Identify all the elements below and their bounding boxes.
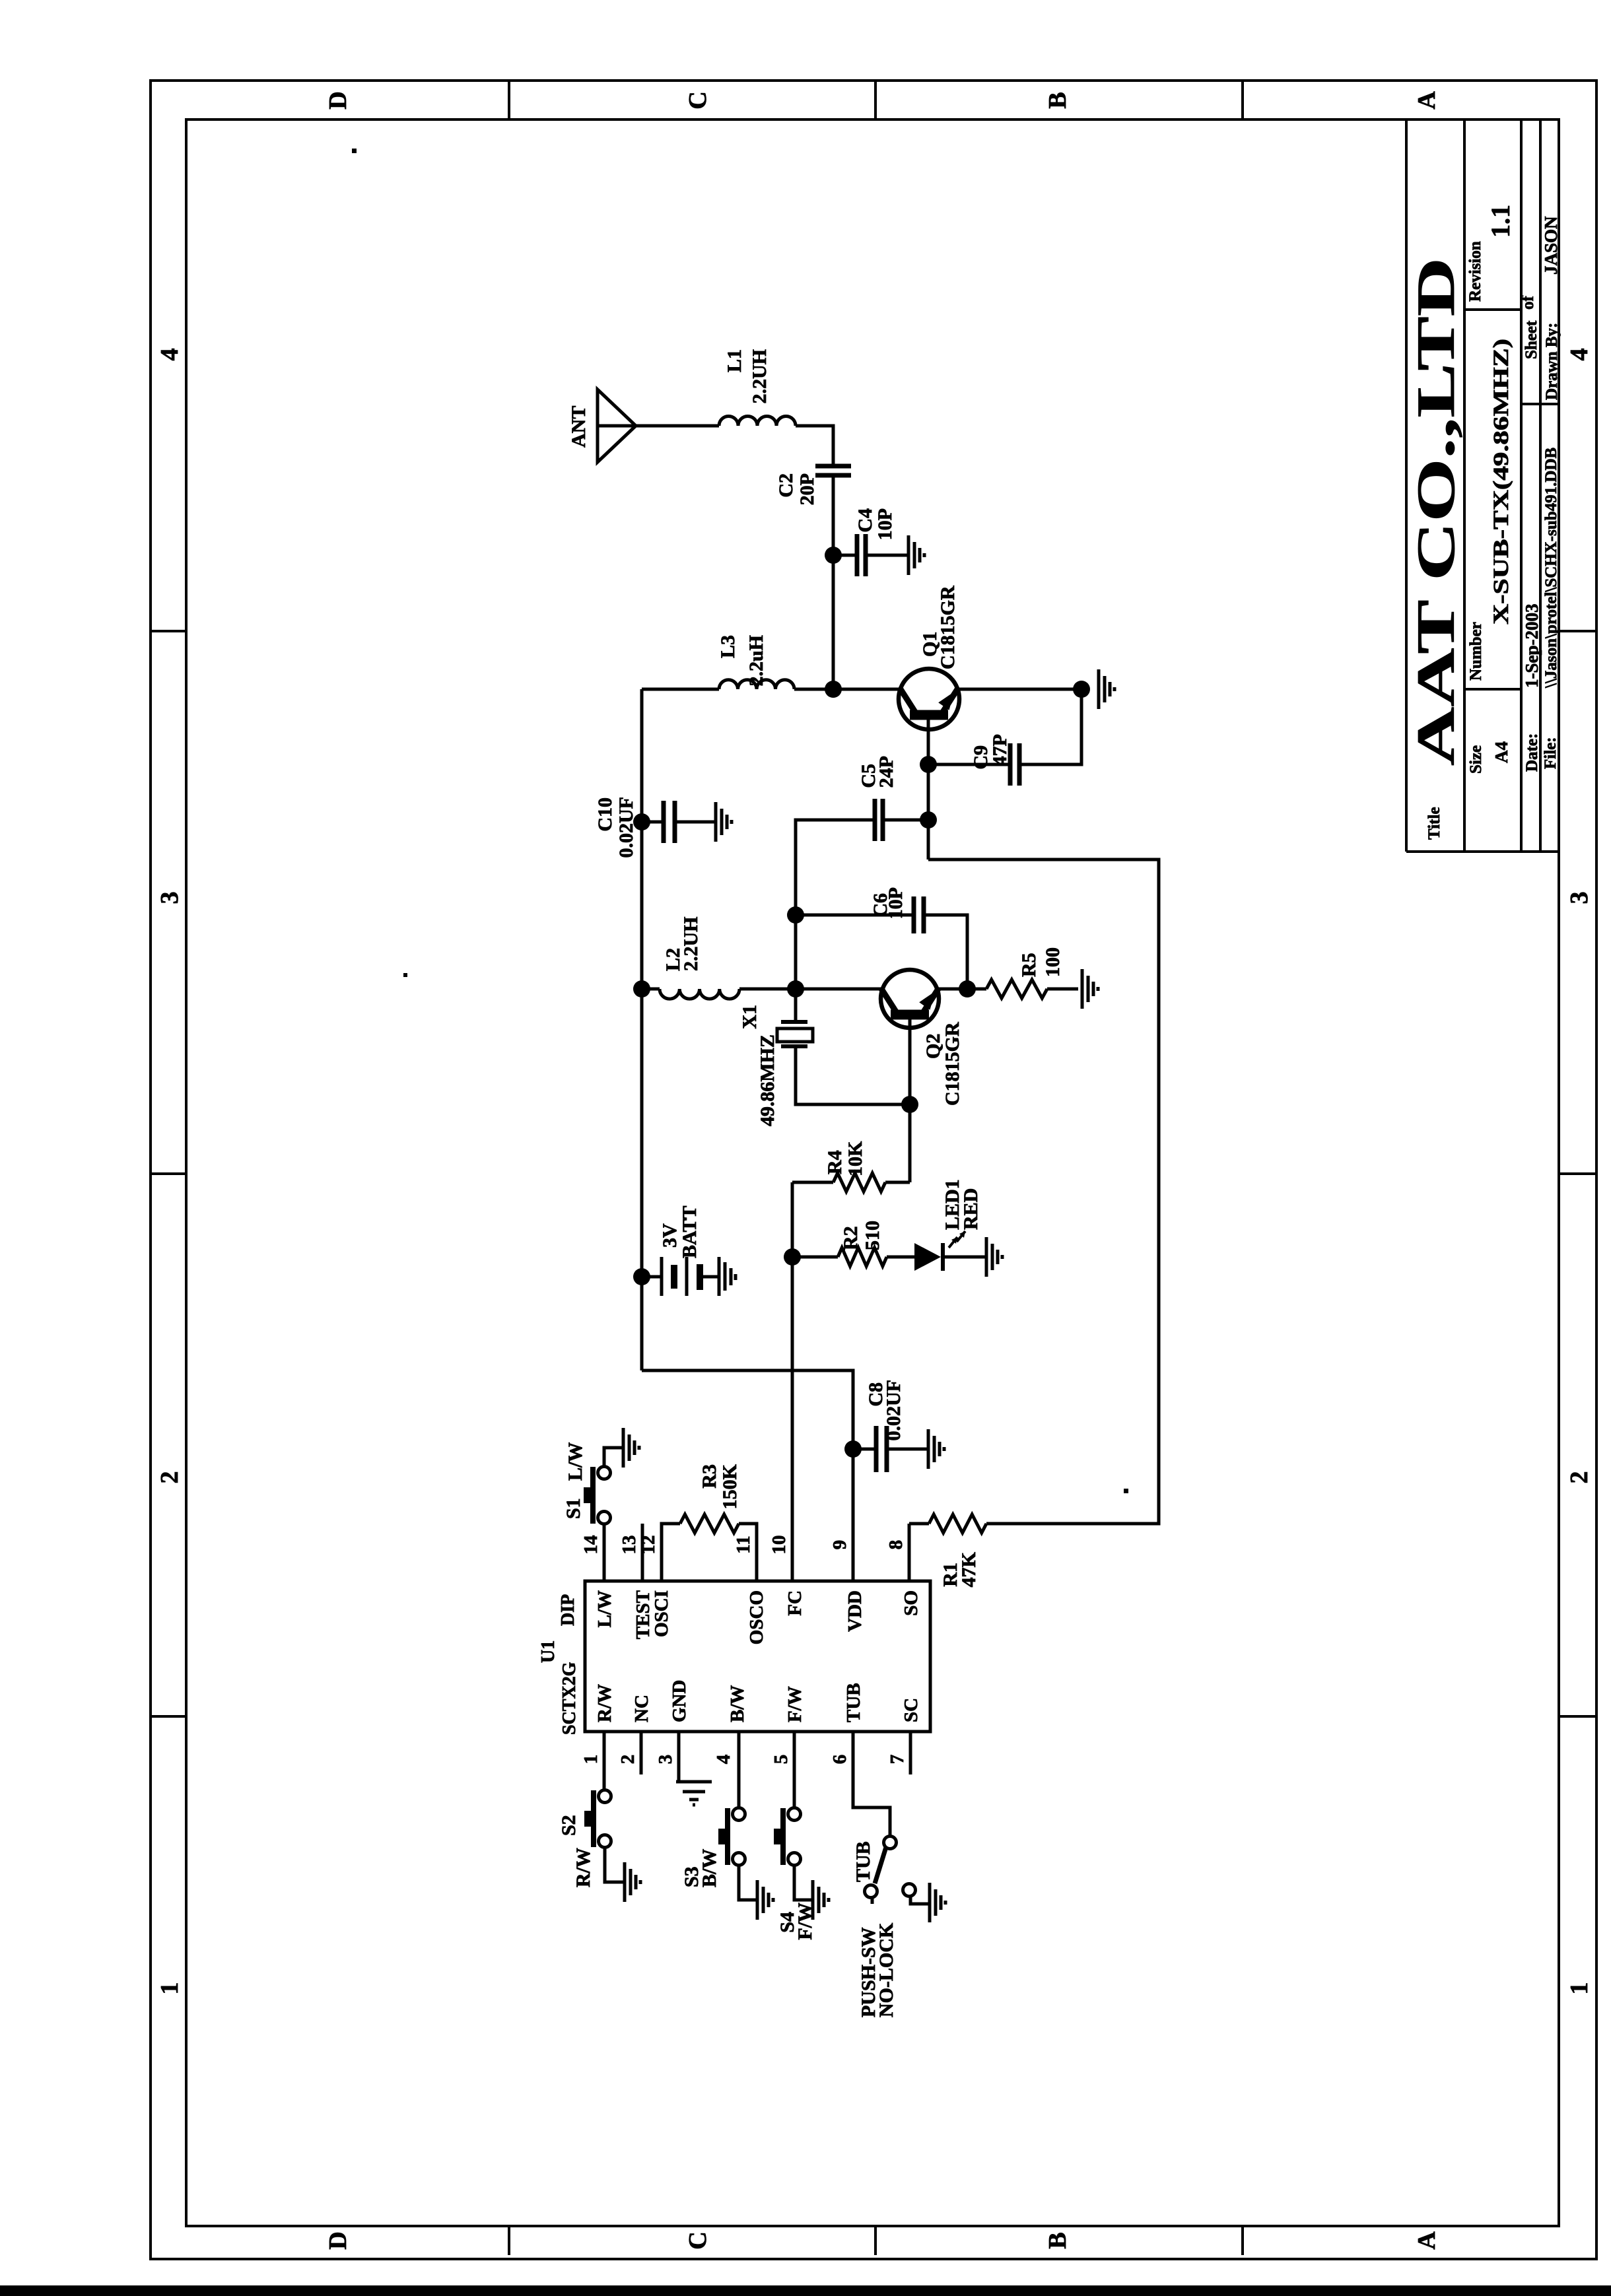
ground C10	[714, 802, 718, 842]
wire Q1 base	[927, 715, 930, 860]
svg-text:SC: SC	[901, 1698, 922, 1722]
svg-text:2: 2	[1565, 1471, 1593, 1484]
svg-text:1: 1	[580, 1755, 601, 1765]
wire C2 to collector node	[832, 475, 835, 689]
switch PUSH-SW NO-LOCK	[884, 1837, 897, 1849]
wire L1 to C2	[796, 426, 833, 466]
svg-text:Size: Size	[1467, 745, 1485, 774]
node junction C4	[825, 547, 842, 564]
svg-text:1.1: 1.1	[1486, 205, 1515, 238]
svg-text:4: 4	[713, 1755, 734, 1765]
svg-text:D: D	[324, 2231, 352, 2249]
svg-text:13: 13	[619, 1536, 640, 1555]
wire pin 1 to S2	[603, 1732, 606, 1790]
svg-text:1: 1	[156, 1982, 184, 1995]
svg-text:R3: R3	[699, 1464, 720, 1489]
LED LED1 RED	[914, 1243, 941, 1271]
node junction oscillator	[787, 980, 804, 997]
wire L3 to Q1 collector	[794, 688, 900, 691]
wire VDD rail	[640, 689, 644, 1370]
svg-text:BATT: BATT	[679, 1206, 701, 1258]
svg-text:4: 4	[156, 349, 184, 361]
wire S2 to ground	[605, 1847, 625, 1882]
wire S4 to ground	[794, 1865, 813, 1900]
ground S4	[811, 1880, 815, 1920]
wire base route to R1	[928, 860, 1159, 1524]
ground LED1	[985, 1237, 988, 1277]
node junction C8	[844, 1440, 862, 1458]
svg-text:510: 510	[862, 1221, 883, 1250]
svg-text:C1815GR: C1815GR	[937, 586, 959, 669]
ground S3	[756, 1880, 759, 1920]
node junction emitter C6	[959, 980, 976, 997]
ground battery	[718, 1257, 721, 1296]
svg-text:L3: L3	[717, 635, 739, 658]
svg-text:C: C	[684, 2231, 712, 2249]
svg-text:20P: 20P	[796, 473, 818, 505]
node junction emitter ground	[1073, 681, 1090, 698]
svg-text:S1: S1	[563, 1498, 584, 1519]
svg-text:Title: Title	[1425, 807, 1443, 840]
svg-text:DIP: DIP	[558, 1594, 578, 1626]
wire pin 14 to S1	[603, 1524, 606, 1581]
svg-text:3V: 3V	[659, 1223, 681, 1248]
svg-text:Drawn By:: Drawn By:	[1543, 323, 1561, 400]
svg-text:L/W: L/W	[565, 1442, 586, 1481]
svg-text:2: 2	[156, 1471, 184, 1484]
switch S3 B/W	[733, 1853, 745, 1866]
svg-text:2.2UH: 2.2UH	[680, 917, 702, 972]
svg-text:GND: GND	[669, 1680, 690, 1722]
wire Q2 base	[908, 1015, 912, 1182]
capacitor C9 47P	[928, 763, 1010, 766]
resistor R1 47K	[929, 1514, 986, 1533]
svg-text:OSCI: OSCI	[651, 1590, 672, 1637]
svg-text:X1: X1	[739, 1005, 761, 1029]
node junction collector line	[825, 681, 842, 698]
svg-text:RED: RED	[960, 1188, 982, 1230]
transistor Q2 C1815GR	[881, 970, 939, 1028]
svg-text:2.2uH: 2.2uH	[745, 635, 767, 687]
svg-text:L1: L1	[724, 349, 745, 372]
node junction C6	[787, 906, 804, 924]
svg-text:150K: 150K	[719, 1464, 741, 1509]
svg-text:D: D	[324, 91, 352, 109]
pin 13 TEST stub	[641, 1524, 644, 1581]
svg-text:3: 3	[156, 892, 184, 904]
svg-text:C1815GR: C1815GR	[942, 1022, 963, 1106]
wire node to X1	[794, 989, 798, 1022]
node junction battery	[633, 1268, 650, 1285]
svg-text:Sheet: Sheet	[1523, 320, 1540, 359]
pin 2 NC stub	[640, 1732, 643, 1774]
ground Q1 emitter	[1097, 669, 1101, 709]
node junction L2	[633, 980, 650, 997]
svg-text:AAT CO.,LTD: AAT CO.,LTD	[1406, 257, 1466, 766]
wire L2 node to Q2 collector	[796, 988, 881, 991]
svg-text:R/W: R/W	[572, 1848, 594, 1887]
svg-text:of: of	[1519, 296, 1537, 310]
svg-text:B/W: B/W	[727, 1685, 748, 1722]
wire pin 4 to S3	[737, 1732, 741, 1808]
svg-text:Number: Number	[1467, 622, 1485, 681]
node junction C9	[920, 756, 937, 773]
svg-text:NC: NC	[631, 1695, 652, 1722]
wire rail to L3	[642, 688, 719, 691]
svg-text:A: A	[1413, 2231, 1441, 2250]
crystal X1 49.86MHZ	[781, 1020, 807, 1024]
wire pin 9 VDD	[642, 1370, 853, 1581]
wire pin 3 to ground	[677, 1732, 681, 1782]
svg-text:TUB: TUB	[852, 1841, 874, 1882]
wire ANT to L1	[636, 424, 719, 428]
wire Q1 emitter	[957, 688, 1081, 691]
svg-text:SCTX2G: SCTX2G	[559, 1662, 580, 1735]
inductor L1 2.2UH	[719, 417, 796, 426]
capacitor C5 24P	[883, 819, 928, 822]
svg-text:3: 3	[1565, 892, 1593, 904]
switch S2 R/W	[599, 1835, 611, 1848]
svg-text:C10: C10	[594, 797, 616, 832]
ground S2	[623, 1862, 627, 1902]
svg-text:ANT: ANT	[568, 406, 590, 448]
svg-text:S2: S2	[558, 1815, 580, 1836]
svg-text:B: B	[1044, 2232, 1072, 2248]
svg-text:24P: 24P	[875, 756, 897, 788]
svg-text:C4: C4	[854, 508, 876, 533]
node junction R2	[784, 1248, 801, 1266]
svg-text:Date:: Date:	[1523, 733, 1541, 772]
border inner frame	[186, 119, 1559, 2226]
inductor L2 2.2UH	[642, 988, 660, 991]
svg-text:R5: R5	[1018, 953, 1040, 977]
capacitor C8 0.02UF	[853, 1448, 876, 1451]
svg-text:4: 4	[1565, 349, 1593, 361]
node junction C5	[920, 811, 937, 828]
title block	[1405, 119, 1408, 852]
ground R5	[1081, 969, 1084, 1009]
svg-text:0.02UF: 0.02UF	[615, 797, 637, 858]
wire Q2 emitter	[938, 988, 986, 991]
switch S1 L/W	[598, 1512, 611, 1524]
svg-text:10P: 10P	[885, 887, 907, 919]
svg-text:2: 2	[617, 1755, 638, 1765]
wire PUSH-SW to ground	[910, 1896, 929, 1904]
ground PUSH-SW	[928, 1883, 932, 1922]
svg-text:FC: FC	[784, 1590, 805, 1616]
capacitor C4 10P	[833, 554, 857, 557]
svg-text:C2: C2	[775, 473, 797, 498]
svg-text:TUB: TUB	[843, 1683, 864, 1722]
wire pin 6 to PUSH-SW	[853, 1732, 890, 1837]
svg-text:OSCO: OSCO	[746, 1590, 767, 1644]
ground C4	[907, 535, 910, 575]
svg-text:B: B	[1044, 92, 1072, 108]
wire S1 to ground	[604, 1448, 623, 1467]
svg-text:0.02UF: 0.02UF	[883, 1380, 905, 1441]
wire X1 to Q2 base	[796, 1046, 910, 1104]
svg-text:10: 10	[769, 1536, 790, 1555]
ground S1	[622, 1428, 625, 1468]
battery BATT 3V	[642, 1275, 662, 1279]
svg-text:R2: R2	[840, 1226, 862, 1250]
svg-text:U1: U1	[538, 1640, 559, 1663]
svg-text:1: 1	[1565, 1982, 1593, 1995]
svg-text:3: 3	[655, 1755, 676, 1765]
svg-text:A4: A4	[1491, 741, 1511, 763]
wire S3 to ground	[739, 1865, 757, 1900]
svg-text:100: 100	[1042, 947, 1064, 977]
node junction X1 base	[901, 1096, 918, 1113]
svg-text:10P: 10P	[874, 508, 896, 540]
ground C8	[927, 1429, 930, 1469]
svg-text:\\Jason\protel\SCHX-sub491.DDB: \\Jason\protel\SCHX-sub491.DDB	[1542, 448, 1560, 689]
wire FC line pin 10	[791, 1182, 794, 1581]
svg-text:49.86MHZ: 49.86MHZ	[757, 1034, 778, 1126]
svg-text:6: 6	[829, 1755, 850, 1765]
capacitor C10 0.02UF	[642, 821, 664, 824]
wire pin 8 stub	[908, 1524, 911, 1581]
svg-text:NO-LOCK: NO-LOCK	[875, 1922, 897, 2017]
ground pin 3 GND	[676, 1780, 712, 1784]
svg-text:7: 7	[887, 1755, 908, 1765]
antenna ANT	[598, 389, 636, 462]
wire pin 5 to S4	[793, 1732, 796, 1808]
svg-text:Revision: Revision	[1466, 241, 1484, 302]
capacitor C6 10P	[796, 914, 914, 917]
resistor R2 510	[792, 1256, 838, 1259]
svg-text:SO: SO	[901, 1590, 922, 1616]
capacitor C2 20P	[815, 473, 851, 478]
svg-text:X-SUB-TX(49.86MHZ): X-SUB-TX(49.86MHZ)	[1490, 339, 1513, 625]
svg-text:JASON: JASON	[1541, 216, 1561, 275]
svg-text:A: A	[1413, 91, 1441, 110]
svg-text:47P: 47P	[989, 734, 1011, 766]
svg-text:B/W: B/W	[699, 1849, 720, 1887]
svg-text:1-Sep-2003: 1-Sep-2003	[1522, 604, 1542, 689]
svg-text:R4: R4	[824, 1150, 846, 1174]
pin 7 SC stub	[909, 1732, 912, 1774]
svg-text:14: 14	[580, 1536, 601, 1555]
resistor R3 150K	[662, 1524, 680, 1581]
svg-text:5: 5	[771, 1755, 792, 1765]
svg-text:11: 11	[733, 1536, 754, 1553]
svg-text:9: 9	[829, 1540, 850, 1550]
inductor L3 2.2uH	[719, 680, 794, 689]
node junction C10	[633, 813, 650, 830]
svg-text:47K: 47K	[958, 1551, 980, 1587]
svg-text:2.2UH: 2.2UH	[749, 349, 771, 404]
svg-text:R/W: R/W	[594, 1684, 615, 1722]
resistor R5 100	[986, 980, 1047, 998]
svg-text:10K: 10K	[844, 1141, 866, 1176]
svg-text:F/W: F/W	[784, 1686, 805, 1722]
svg-text:C: C	[684, 91, 712, 109]
svg-text:VDD: VDD	[844, 1590, 866, 1632]
IC U1 SCTX2G DIP	[585, 1581, 930, 1732]
switch S4 F/W	[788, 1853, 801, 1866]
svg-text:L/W: L/W	[594, 1590, 615, 1627]
svg-text:8: 8	[885, 1540, 907, 1550]
svg-text:File:: File:	[1542, 737, 1560, 769]
resistor R4 10K	[792, 1181, 833, 1184]
transistor Q1 C1815GR	[899, 669, 959, 729]
